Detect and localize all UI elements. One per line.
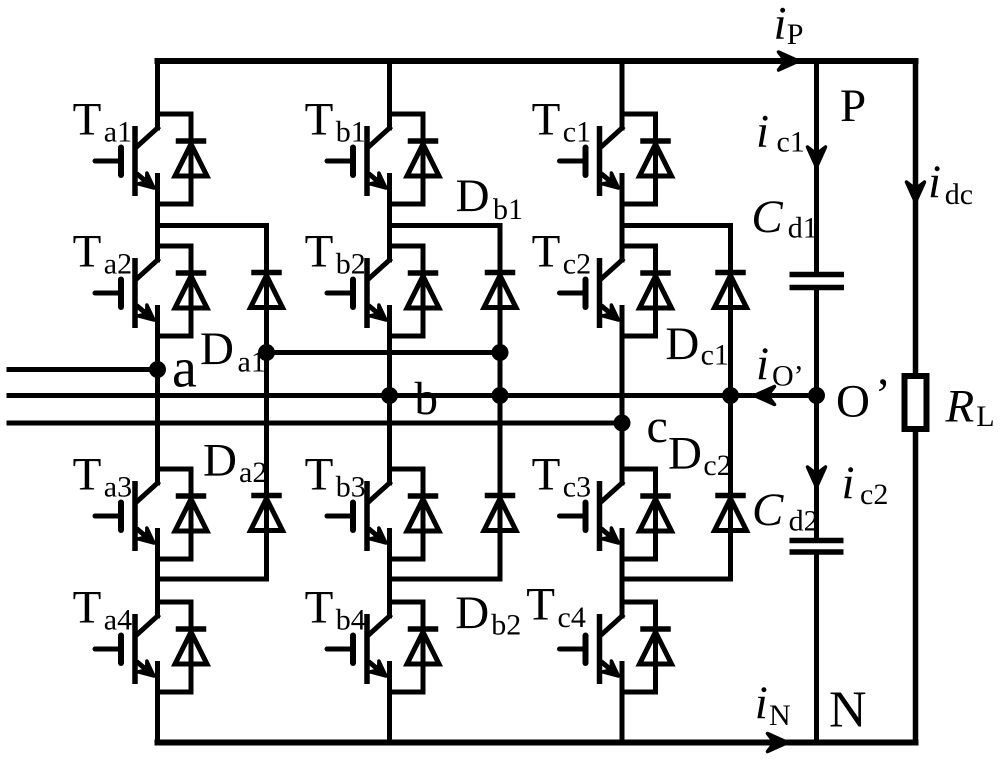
wire phase-b leg column — [387, 61, 392, 743]
label Dc2 — [668, 427, 732, 482]
transistor Tb1 (IGBT with antiparallel diode) — [327, 114, 439, 204]
label Db2 — [455, 587, 521, 642]
junction dot clamp-c on neutral — [722, 387, 739, 404]
svg-text:D: D — [203, 435, 237, 487]
svg-text:i: i — [756, 106, 769, 158]
svg-text:T: T — [305, 226, 334, 278]
svg-text:i: i — [756, 338, 769, 390]
svg-text:L: L — [976, 400, 994, 433]
svg-text:T: T — [305, 582, 334, 634]
svg-text:c1: c1 — [777, 126, 805, 159]
svg-text:c2: c2 — [703, 449, 731, 482]
svg-text:C: C — [752, 484, 784, 536]
svg-text:T: T — [73, 582, 102, 634]
node a junction dot — [149, 361, 166, 378]
label node O' — [836, 369, 891, 428]
svg-text:b4: b4 — [336, 603, 366, 636]
label iP — [774, 0, 804, 51]
svg-text:c4: c4 — [558, 601, 586, 634]
transistor Tc1 (IGBT with antiparallel diode) — [560, 114, 672, 204]
wire phase-c leg column — [620, 61, 625, 743]
label Dc1 — [665, 318, 729, 372]
svg-text:D: D — [456, 170, 490, 222]
arrow iO' (leftward) — [755, 387, 775, 405]
wire phase-a leg column — [155, 61, 160, 743]
label Da1 — [200, 323, 266, 378]
svg-text:a3: a3 — [104, 470, 132, 503]
svg-text:D: D — [665, 318, 699, 370]
diode Db2 (lower clamp diode) — [484, 496, 516, 531]
diode Dc2 (lower clamp diode) — [715, 496, 747, 531]
wire clamp branch top (Tb1/Tb2 junction to clamp column) — [390, 226, 501, 580]
wire right rail upper (P to RL) — [913, 61, 919, 373]
wire clamp branch top (Ta1/Ta2 junction to clamp column) — [158, 226, 267, 580]
label Tc1 — [532, 94, 592, 149]
diode Dc1 (upper clamp diode) — [715, 273, 747, 308]
wire neutral line to O' — [9, 393, 817, 398]
svg-text:a4: a4 — [104, 603, 132, 636]
transistor Ta3 (IGBT with antiparallel diode) — [95, 469, 207, 559]
svg-text:b2: b2 — [336, 247, 366, 280]
svg-text:D: D — [668, 427, 702, 479]
svg-text:O’: O’ — [772, 360, 804, 393]
svg-text:d2: d2 — [789, 505, 819, 538]
label node P — [840, 80, 866, 132]
label ic1 — [756, 106, 805, 159]
arrow iN (bottom bus, rightward) — [768, 734, 788, 752]
svg-text:a: a — [172, 338, 197, 400]
svg-text:T: T — [532, 94, 561, 146]
transistor Ta1 (IGBT with antiparallel diode) — [95, 114, 207, 204]
svg-text:N: N — [829, 682, 867, 739]
label node a — [172, 338, 197, 400]
svg-text:T: T — [305, 449, 334, 501]
svg-text:N: N — [769, 699, 791, 732]
transistor Tb3 (IGBT with antiparallel diode) — [327, 469, 439, 559]
label Tc2 — [532, 226, 592, 281]
svg-text:dc: dc — [945, 178, 973, 211]
svg-text:d1: d1 — [788, 212, 818, 245]
transistor Tb2 (IGBT with antiparallel diode) — [327, 246, 439, 336]
svg-text:O: O — [836, 376, 870, 428]
node c junction dot — [614, 415, 631, 432]
diode Da1 (upper clamp diode) — [251, 273, 283, 308]
svg-text:i: i — [928, 156, 941, 208]
svg-text:b1: b1 — [493, 193, 523, 226]
resistor RL — [905, 376, 927, 429]
capacitor Cd2 — [790, 541, 844, 553]
svg-text:D: D — [455, 587, 489, 639]
svg-text:a1: a1 — [104, 115, 132, 148]
junction dot clamp-a midpoint — [258, 344, 275, 361]
svg-text:T: T — [532, 226, 561, 278]
label Tb2 — [305, 226, 366, 281]
node O' junction dot — [808, 387, 825, 404]
svg-text:T: T — [73, 449, 102, 501]
svg-text:T: T — [526, 579, 555, 631]
svg-text:a2: a2 — [104, 247, 132, 280]
junction dot clamp-b on neutral — [492, 387, 509, 404]
node b junction dot — [381, 387, 398, 404]
label Da2 — [203, 435, 267, 490]
svg-text:b1: b1 — [336, 115, 366, 148]
label Cd1 — [751, 191, 817, 245]
transistor Tc4 (IGBT with antiparallel diode) — [560, 602, 672, 692]
svg-text:a2: a2 — [239, 456, 267, 489]
transistor Ta2 (IGBT with antiparallel diode) — [95, 246, 207, 336]
wire phase c output line — [9, 421, 622, 426]
svg-text:P: P — [840, 80, 866, 132]
svg-text:b2: b2 — [491, 609, 521, 642]
label Ta1 — [73, 94, 133, 149]
label Tb1 — [305, 94, 366, 149]
svg-text:T: T — [532, 449, 561, 501]
wire clamp branch top (Tc1/Tc2 junction to clamp column) — [622, 226, 731, 580]
label idc — [928, 156, 973, 211]
svg-text:a1: a1 — [238, 345, 266, 378]
svg-text:b3: b3 — [336, 470, 366, 503]
transistor Tc2 (IGBT with antiparallel diode) — [560, 246, 672, 336]
transistor Tb4 (IGBT with antiparallel diode) — [327, 602, 439, 692]
svg-text:R: R — [945, 380, 975, 432]
svg-text:c: c — [647, 400, 668, 453]
svg-text:c3: c3 — [563, 470, 591, 503]
wire cap column Cd2 to N — [814, 553, 819, 743]
label node c — [647, 400, 668, 453]
transistor Ta4 (IGBT with antiparallel diode) — [95, 602, 207, 692]
svg-text:T: T — [305, 94, 334, 146]
svg-text:i: i — [842, 457, 855, 509]
svg-text:D: D — [200, 323, 234, 375]
wire bottom DC bus N — [158, 740, 916, 746]
svg-text:i: i — [755, 677, 768, 729]
svg-text:C: C — [751, 191, 783, 243]
svg-text:c2: c2 — [563, 247, 591, 280]
label node b — [415, 373, 439, 425]
wire top DC bus P — [158, 58, 916, 64]
arrow idc (down) — [907, 182, 925, 202]
svg-text:c1: c1 — [701, 339, 729, 372]
wire phase a output line — [9, 367, 158, 372]
label Tc3 — [532, 449, 592, 504]
label Db1 — [456, 170, 523, 226]
label Cd2 — [752, 484, 819, 538]
arrow ic2 (down) — [808, 467, 826, 487]
label Tb3 — [305, 449, 366, 504]
label Ta4 — [73, 582, 133, 637]
svg-text:c2: c2 — [860, 478, 888, 511]
label RL — [945, 380, 995, 433]
transistor Tc3 (IGBT with antiparallel diode) — [560, 469, 672, 559]
diode Da2 (lower clamp diode) — [251, 496, 283, 531]
label ic2 — [842, 457, 889, 511]
wire cap column P to Cd1 — [814, 61, 819, 274]
svg-text:’: ’ — [875, 369, 891, 421]
svg-text:c1: c1 — [563, 115, 591, 148]
label Tc4 — [526, 579, 586, 635]
label Ta3 — [73, 449, 133, 504]
svg-text:T: T — [73, 226, 102, 278]
junction dot clamp-b upper — [492, 344, 509, 361]
wire right rail lower (RL to N) — [913, 432, 919, 743]
svg-text:T: T — [73, 94, 102, 146]
label node N — [829, 682, 867, 739]
svg-text:b: b — [415, 373, 439, 425]
arrow iP (top bus, rightward) — [779, 52, 799, 70]
wire clamp midpoint link (Da to Db) — [267, 350, 501, 355]
wire cap column O' to Cd2 — [814, 396, 819, 541]
svg-text:P: P — [787, 18, 804, 51]
diode Db1 (upper clamp diode) — [484, 273, 516, 308]
capacitor Cd1 — [790, 275, 845, 288]
label Ta2 — [73, 226, 133, 281]
label iN — [755, 677, 791, 732]
arrow ic1 (down) — [808, 147, 826, 167]
label iO’ — [756, 338, 804, 393]
label Tb4 — [305, 582, 366, 637]
wire cap column Cd1 to O' — [814, 288, 819, 396]
svg-text:i: i — [774, 0, 787, 50]
